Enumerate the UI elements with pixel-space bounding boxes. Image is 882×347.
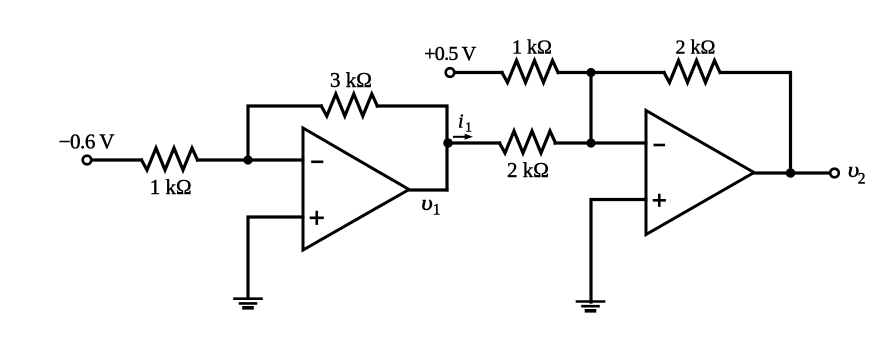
svg-text:1: 1	[465, 121, 472, 136]
svg-text:1: 1	[433, 201, 441, 218]
svg-text:−0.6 V: −0.6 V	[59, 130, 115, 154]
svg-text:2 kΩ: 2 kΩ	[507, 158, 549, 182]
svg-text:3 kΩ: 3 kΩ	[330, 68, 372, 92]
svg-text:i: i	[458, 111, 464, 133]
svg-text:1 kΩ: 1 kΩ	[150, 175, 192, 199]
svg-text:1 kΩ: 1 kΩ	[512, 37, 552, 59]
svg-text:2 kΩ: 2 kΩ	[676, 37, 716, 59]
svg-text:2: 2	[858, 170, 866, 187]
svg-text:υ: υ	[421, 190, 433, 215]
svg-text:+0.5 V: +0.5 V	[424, 43, 477, 65]
